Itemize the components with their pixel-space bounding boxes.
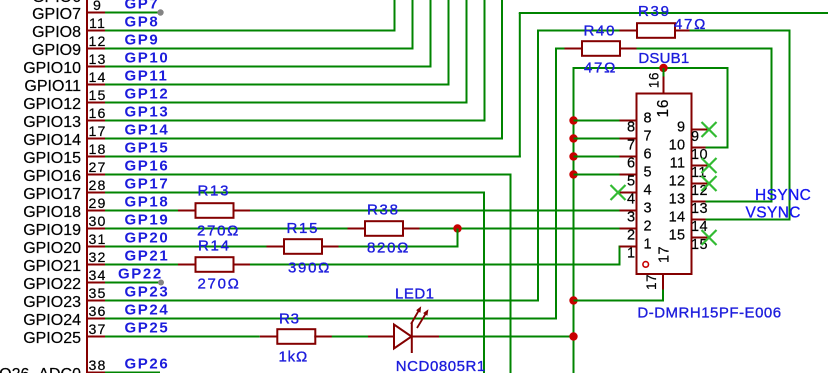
svg-text:GP22: GP22 — [118, 266, 163, 283]
svg-text:1kΩ: 1kΩ — [279, 349, 308, 366]
svg-text:GPIO20: GPIO20 — [23, 240, 81, 257]
svg-text:16: 16 — [647, 72, 662, 88]
svg-text:GP15: GP15 — [125, 140, 170, 157]
svg-text:35: 35 — [89, 286, 107, 302]
svg-text:36: 36 — [89, 304, 107, 320]
svg-text:13: 13 — [89, 52, 107, 68]
svg-text:GPIO8: GPIO8 — [32, 24, 81, 41]
svg-text:R15: R15 — [287, 220, 320, 237]
svg-text:9: 9 — [677, 119, 685, 135]
svg-text:GPIO16: GPIO16 — [23, 168, 81, 185]
svg-text:R40: R40 — [584, 23, 617, 40]
svg-text:DSUB1: DSUB1 — [638, 50, 689, 67]
svg-text:R13: R13 — [198, 183, 231, 200]
svg-text:5: 5 — [644, 164, 652, 180]
svg-text:GPIO10: GPIO10 — [23, 60, 81, 77]
svg-text:GPIO23: GPIO23 — [23, 294, 81, 311]
svg-text:270Ω: 270Ω — [198, 276, 241, 293]
svg-text:GP19: GP19 — [125, 212, 170, 229]
svg-text:GPIO25: GPIO25 — [23, 330, 81, 347]
svg-text:GPIO7: GPIO7 — [32, 6, 81, 23]
svg-text:D-DMRH15PF-E006: D-DMRH15PF-E006 — [637, 305, 781, 322]
svg-text:GP10: GP10 — [125, 50, 170, 67]
svg-text:GPIO9: GPIO9 — [32, 42, 81, 59]
svg-text:GP24: GP24 — [125, 302, 170, 319]
svg-text:13: 13 — [691, 201, 708, 217]
svg-text:R3: R3 — [279, 311, 300, 328]
svg-text:7: 7 — [644, 128, 652, 144]
svg-text:GP13: GP13 — [125, 104, 170, 121]
svg-text:2: 2 — [627, 228, 635, 244]
svg-text:34: 34 — [89, 268, 107, 284]
svg-text:GPIO14: GPIO14 — [23, 132, 81, 149]
svg-text:GP26: GP26 — [125, 356, 170, 373]
svg-text:GPIO22: GPIO22 — [23, 276, 81, 293]
svg-text:47Ω: 47Ω — [584, 60, 617, 77]
svg-text:38: 38 — [89, 358, 107, 373]
svg-text:28: 28 — [89, 178, 107, 194]
svg-text:16: 16 — [89, 106, 107, 122]
svg-text:37: 37 — [89, 322, 107, 338]
svg-text:GPIO26_ADC0: GPIO26_ADC0 — [0, 366, 81, 373]
svg-text:17: 17 — [89, 124, 107, 140]
svg-text:13: 13 — [669, 191, 686, 207]
svg-text:17: 17 — [644, 274, 659, 290]
svg-text:R39: R39 — [638, 3, 671, 20]
svg-text:12: 12 — [669, 173, 686, 189]
svg-text:GP16: GP16 — [125, 158, 170, 175]
svg-text:GP20: GP20 — [125, 230, 170, 247]
svg-text:390Ω: 390Ω — [288, 260, 331, 277]
svg-text:GPIO12: GPIO12 — [23, 96, 81, 113]
svg-text:10: 10 — [669, 137, 686, 153]
svg-text:3: 3 — [627, 210, 635, 226]
svg-text:6: 6 — [627, 156, 635, 172]
svg-text:9: 9 — [93, 0, 102, 14]
svg-text:27: 27 — [89, 160, 107, 176]
svg-text:GPIO13: GPIO13 — [23, 114, 81, 131]
svg-text:47Ω: 47Ω — [674, 16, 707, 33]
svg-text:GP9: GP9 — [125, 32, 160, 49]
svg-text:LED1: LED1 — [395, 286, 435, 303]
svg-text:12: 12 — [691, 183, 708, 199]
svg-text:GPIO19: GPIO19 — [23, 222, 81, 239]
svg-text:15: 15 — [691, 237, 708, 253]
svg-text:14: 14 — [89, 70, 107, 86]
svg-text:GP8: GP8 — [125, 14, 160, 31]
svg-text:4: 4 — [644, 182, 652, 198]
svg-text:GPIO11: GPIO11 — [24, 78, 81, 95]
svg-text:11: 11 — [89, 16, 106, 32]
svg-text:VSYNC: VSYNC — [746, 205, 801, 222]
svg-text:18: 18 — [89, 142, 107, 158]
svg-text:8: 8 — [644, 110, 652, 126]
svg-text:12: 12 — [89, 34, 107, 50]
svg-text:4: 4 — [627, 192, 635, 208]
svg-text:GPIO24: GPIO24 — [23, 312, 81, 329]
svg-text:1: 1 — [644, 236, 652, 252]
svg-text:GP12: GP12 — [125, 86, 170, 103]
svg-text:GP23: GP23 — [125, 284, 170, 301]
svg-text:GP7: GP7 — [125, 0, 160, 13]
svg-text:GPIO15: GPIO15 — [23, 150, 81, 167]
svg-text:GPIO6: GPIO6 — [32, 0, 81, 6]
svg-text:820Ω: 820Ω — [367, 240, 410, 257]
svg-text:GP21: GP21 — [125, 248, 170, 265]
svg-text:29: 29 — [89, 196, 107, 212]
svg-text:32: 32 — [89, 250, 107, 266]
svg-text:3: 3 — [644, 200, 652, 216]
svg-text:GPIO21: GPIO21 — [23, 258, 81, 275]
svg-text:R38: R38 — [367, 202, 400, 219]
svg-text:GP25: GP25 — [125, 320, 170, 337]
svg-text:2: 2 — [644, 218, 652, 234]
svg-text:6: 6 — [644, 146, 652, 162]
svg-text:15: 15 — [89, 88, 107, 104]
svg-text:17: 17 — [657, 246, 673, 263]
svg-text:GP18: GP18 — [125, 194, 170, 211]
svg-text:15: 15 — [669, 227, 686, 243]
svg-text:14: 14 — [669, 209, 686, 225]
svg-text:9: 9 — [691, 129, 699, 145]
svg-text:GP14: GP14 — [125, 122, 170, 139]
svg-text:NCD0805R1: NCD0805R1 — [396, 358, 486, 373]
svg-text:31: 31 — [89, 232, 107, 248]
svg-text:GPIO18: GPIO18 — [23, 204, 81, 221]
svg-text:30: 30 — [89, 214, 107, 230]
svg-text:GP17: GP17 — [125, 176, 170, 193]
svg-text:5: 5 — [627, 174, 635, 190]
svg-text:R14: R14 — [198, 238, 231, 255]
svg-text:8: 8 — [627, 120, 635, 136]
svg-text:HSYNC: HSYNC — [755, 187, 811, 204]
svg-text:GPIO17: GPIO17 — [23, 186, 81, 203]
svg-text:16: 16 — [655, 99, 672, 118]
svg-text:11: 11 — [670, 155, 686, 171]
svg-text:1: 1 — [627, 246, 635, 262]
svg-text:GP11: GP11 — [125, 68, 169, 85]
svg-text:7: 7 — [627, 138, 635, 154]
